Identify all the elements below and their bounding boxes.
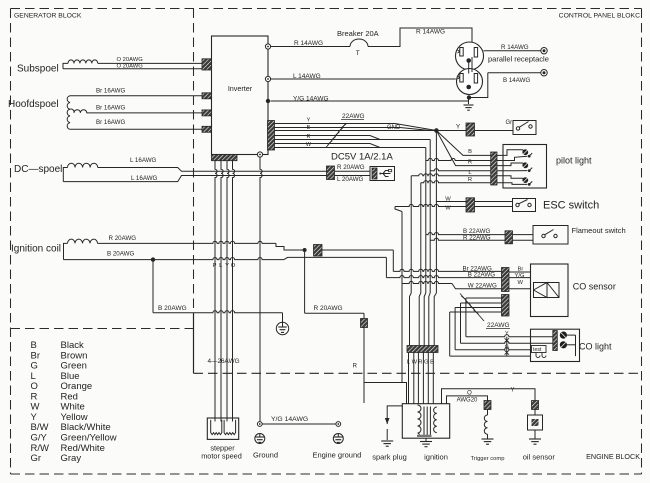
svg-text:W: W bbox=[412, 360, 418, 366]
svg-text:L 16AWG: L 16AWG bbox=[130, 157, 157, 164]
svg-text:B 20AWG: B 20AWG bbox=[158, 305, 187, 312]
svg-text:Gray: Gray bbox=[61, 453, 82, 464]
svg-text:Y: Y bbox=[225, 263, 229, 269]
svg-text:P: P bbox=[213, 263, 217, 269]
svg-text:R 20AWG: R 20AWG bbox=[314, 305, 343, 312]
svg-text:Trigger comp: Trigger comp bbox=[471, 456, 505, 462]
svg-text:Ignition coil: Ignition coil bbox=[11, 244, 61, 255]
svg-text:O: O bbox=[231, 263, 236, 269]
svg-text:Ground: Ground bbox=[253, 451, 278, 460]
svg-text:ESC switch: ESC switch bbox=[543, 200, 599, 212]
svg-text:ENGINE BLOCK: ENGINE BLOCK bbox=[586, 452, 640, 461]
svg-text:W: W bbox=[518, 280, 524, 286]
svg-text:B 20AWG: B 20AWG bbox=[107, 251, 134, 258]
svg-text:motor speed: motor speed bbox=[201, 452, 242, 461]
svg-text:T: T bbox=[356, 50, 360, 57]
svg-text:test: test bbox=[533, 347, 542, 353]
svg-text:CONTROL PANEL BLOKC: CONTROL PANEL BLOKC bbox=[559, 13, 640, 20]
svg-text:Br 16AWG: Br 16AWG bbox=[96, 119, 126, 126]
svg-text:R: R bbox=[418, 360, 422, 366]
svg-text:R: R bbox=[353, 364, 358, 370]
svg-text:ignition: ignition bbox=[424, 453, 448, 462]
svg-text:Engine ground: Engine ground bbox=[313, 451, 362, 460]
svg-text:R 20AWG: R 20AWG bbox=[337, 164, 365, 171]
svg-text:R 14AWG: R 14AWG bbox=[501, 44, 529, 51]
svg-text:R 14AWG: R 14AWG bbox=[294, 40, 323, 47]
svg-text:B: B bbox=[430, 360, 434, 366]
svg-text:O 20AWG: O 20AWG bbox=[117, 64, 144, 70]
svg-text:Y: Y bbox=[505, 331, 509, 337]
svg-text:R 14AWG: R 14AWG bbox=[416, 29, 445, 36]
svg-text:pilot light: pilot light bbox=[556, 156, 592, 166]
svg-text:Y: Y bbox=[456, 124, 461, 131]
svg-text:22AWG: 22AWG bbox=[342, 113, 365, 120]
svg-text:Y: Y bbox=[510, 388, 514, 394]
svg-text:G: G bbox=[505, 345, 509, 351]
svg-text:Breaker 20A: Breaker 20A bbox=[337, 29, 379, 38]
svg-text:CO light: CO light bbox=[579, 342, 612, 352]
svg-text:GENERATOR BLOCK: GENERATOR BLOCK bbox=[14, 13, 82, 20]
svg-text:Y: Y bbox=[307, 118, 311, 124]
svg-text:B: B bbox=[468, 149, 472, 155]
svg-text:G: G bbox=[424, 360, 429, 366]
svg-text:oil sensor: oil sensor bbox=[523, 453, 556, 462]
svg-text:Gr: Gr bbox=[31, 453, 42, 464]
svg-text:L 20AWG: L 20AWG bbox=[337, 176, 364, 183]
svg-text:parallel receptacle: parallel receptacle bbox=[488, 55, 549, 64]
svg-text:B 14AWG: B 14AWG bbox=[503, 77, 530, 84]
svg-text:R 20AWG: R 20AWG bbox=[109, 235, 137, 242]
svg-text:Gr: Gr bbox=[506, 120, 513, 126]
svg-text:Br 16AWG: Br 16AWG bbox=[96, 87, 126, 94]
svg-text:Y/G: Y/G bbox=[515, 273, 525, 279]
svg-text:W 22AWG: W 22AWG bbox=[468, 283, 497, 290]
svg-text:Flameout switch: Flameout switch bbox=[572, 226, 626, 235]
svg-text:Y/G 14AWG: Y/G 14AWG bbox=[271, 416, 308, 423]
svg-text:O: O bbox=[467, 391, 472, 397]
svg-text:DC—spoel: DC—spoel bbox=[14, 164, 62, 175]
svg-text:GND: GND bbox=[387, 125, 401, 131]
svg-text:Br 16AWG: Br 16AWG bbox=[96, 105, 126, 112]
svg-text:spark plug: spark plug bbox=[372, 453, 407, 462]
svg-text:AWG20: AWG20 bbox=[457, 398, 478, 404]
svg-text:22AWG: 22AWG bbox=[487, 322, 510, 329]
svg-text:Subspoel: Subspoel bbox=[17, 64, 59, 75]
svg-text:Inverter: Inverter bbox=[228, 84, 253, 93]
svg-text:CO sensor: CO sensor bbox=[573, 282, 616, 292]
svg-text:B 22AWG: B 22AWG bbox=[468, 272, 495, 279]
svg-text:4—26AWG: 4—26AWG bbox=[208, 358, 240, 365]
svg-text:Hoofdspoel: Hoofdspoel bbox=[8, 99, 59, 110]
svg-text:R: R bbox=[468, 177, 472, 183]
svg-text:O 20AWG: O 20AWG bbox=[117, 57, 144, 63]
svg-text:DC5V 1A/2.1A: DC5V 1A/2.1A bbox=[331, 152, 393, 163]
